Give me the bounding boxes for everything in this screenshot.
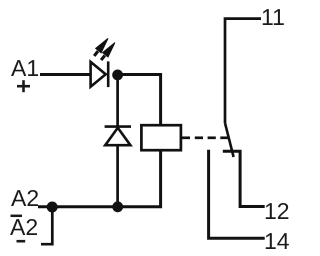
- junction node diode anode on A2 rail: [112, 201, 123, 212]
- svg-text:A1: A1: [11, 55, 39, 81]
- junction node at LED cathode: [112, 70, 123, 81]
- contact lever: [225, 123, 234, 157]
- dashed mechanical link coil to contact: [181, 136, 229, 139]
- freewheeling diode: [105, 127, 131, 146]
- wire diode anode to A2 rail: [116, 145, 119, 207]
- LED diode: [91, 61, 109, 87]
- wire terminal 11: [225, 19, 261, 123]
- svg-text:A2: A2: [11, 185, 39, 211]
- polarity minus of A2-bar: [17, 240, 26, 243]
- svg-text:12: 12: [264, 198, 290, 224]
- macron bar over A2-bar: [11, 215, 23, 218]
- junction node at A2 terminal: [47, 202, 58, 213]
- wire junction to freewheeling diode: [116, 75, 119, 126]
- relay coil K1: [141, 125, 181, 150]
- wire terminal 14: [209, 150, 265, 239]
- wire A1 rail: [40, 73, 91, 76]
- wire from junction to relay coil top: [118, 75, 161, 126]
- LED light emission arrows: [94, 38, 115, 60]
- wire A2-bar hook to A2 node: [41, 207, 52, 244]
- svg-text:11: 11: [261, 4, 285, 30]
- polarity plus of A1: [17, 80, 30, 92]
- wire terminal 12: [223, 151, 265, 206]
- svg-text:14: 14: [264, 228, 290, 254]
- wire relay coil bottom to A2 rail: [38, 150, 161, 207]
- svg-text:A2: A2: [10, 214, 38, 240]
